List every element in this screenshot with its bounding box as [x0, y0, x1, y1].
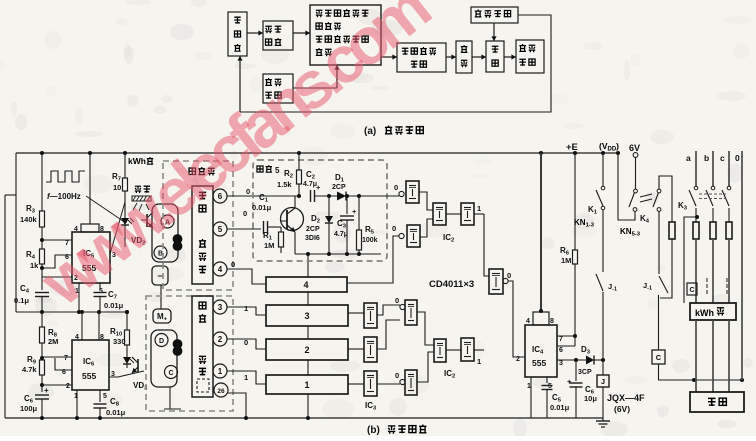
svg-text:0: 0	[246, 187, 250, 196]
svg-text:0: 0	[392, 224, 396, 233]
svg-text:3DI6: 3DI6	[305, 235, 320, 242]
svg-text:4.7k: 4.7k	[22, 365, 37, 374]
svg-text:0: 0	[395, 371, 399, 380]
svg-text:1: 1	[304, 380, 309, 390]
svg-text:C: C	[168, 370, 173, 377]
svg-text:+: +	[44, 386, 49, 395]
svg-text:+: +	[352, 207, 357, 216]
svg-text:8: 8	[550, 318, 554, 325]
svg-text:140k: 140k	[20, 215, 38, 224]
svg-text:330: 330	[113, 337, 126, 346]
svg-text:100μ: 100μ	[20, 404, 38, 413]
svg-text:J: J	[601, 377, 605, 386]
svg-text:4.7μ: 4.7μ	[334, 231, 348, 238]
svg-text:a: a	[686, 153, 691, 163]
svg-text:D: D	[159, 338, 164, 345]
svg-text:4: 4	[75, 334, 79, 341]
svg-text:CD4011×3: CD4011×3	[429, 279, 474, 290]
svg-text:C: C	[656, 353, 662, 362]
svg-text:2CP: 2CP	[306, 226, 320, 233]
svg-text:3: 3	[559, 360, 563, 367]
svg-text:555: 555	[532, 358, 546, 368]
svg-text:1: 1	[244, 373, 248, 382]
svg-text:4.7μ: 4.7μ	[303, 181, 317, 188]
svg-text:1: 1	[477, 204, 481, 213]
svg-text:(a): (a)	[364, 126, 376, 137]
svg-text:1: 1	[244, 304, 248, 313]
svg-text:2M: 2M	[48, 337, 58, 346]
svg-text:(6V): (6V)	[614, 404, 630, 414]
svg-text:7: 7	[559, 336, 563, 343]
svg-text:555: 555	[82, 371, 96, 381]
svg-text:1M: 1M	[561, 256, 571, 265]
svg-text:0.1μ: 0.1μ	[14, 296, 29, 305]
svg-text:kWh: kWh	[128, 156, 146, 166]
svg-text:3: 3	[218, 303, 223, 312]
svg-text:8: 8	[100, 334, 104, 341]
svg-text:b: b	[704, 153, 709, 163]
svg-text:6V: 6V	[629, 143, 640, 153]
svg-text:3: 3	[304, 311, 309, 321]
svg-text:5: 5	[275, 166, 280, 175]
svg-text:4: 4	[526, 318, 530, 325]
svg-text:0: 0	[735, 153, 740, 163]
svg-text:0.01μ: 0.01μ	[104, 301, 124, 310]
svg-text:1M: 1M	[264, 241, 274, 250]
svg-text:0.01μ: 0.01μ	[106, 408, 126, 417]
svg-text:0: 0	[394, 183, 398, 192]
svg-text:0: 0	[243, 209, 247, 218]
svg-text:1: 1	[218, 367, 223, 376]
svg-text:26: 26	[217, 388, 225, 395]
svg-text:2: 2	[516, 356, 520, 363]
svg-text:100k: 100k	[362, 237, 378, 244]
svg-text:+E: +E	[566, 142, 578, 153]
svg-text:5: 5	[103, 393, 107, 400]
svg-text:2: 2	[218, 335, 223, 344]
svg-text:5: 5	[218, 225, 223, 234]
svg-text:1.5k: 1.5k	[277, 180, 292, 189]
svg-text:4: 4	[303, 280, 308, 290]
svg-text:2CP: 2CP	[332, 184, 346, 191]
svg-text:6: 6	[559, 347, 563, 354]
svg-text:0: 0	[395, 296, 399, 305]
svg-text:(b): (b)	[367, 425, 380, 436]
svg-text:−: −	[157, 271, 162, 281]
svg-text:C: C	[689, 287, 694, 294]
svg-text:kWh: kWh	[695, 308, 714, 318]
svg-text:c: c	[720, 153, 725, 163]
svg-text:2: 2	[66, 383, 70, 390]
svg-text:3CP: 3CP	[578, 369, 592, 376]
svg-text:7: 7	[64, 355, 68, 362]
svg-text:0.01μ: 0.01μ	[252, 203, 272, 212]
svg-text:4: 4	[218, 265, 223, 274]
svg-text:1: 1	[527, 383, 531, 390]
svg-text:0: 0	[244, 338, 248, 347]
svg-text:0.01μ: 0.01μ	[550, 403, 570, 412]
svg-text:0: 0	[507, 271, 511, 280]
svg-text:0: 0	[231, 260, 235, 269]
svg-text:10μ: 10μ	[584, 394, 597, 403]
svg-text:JQX—4F: JQX—4F	[607, 393, 645, 403]
svg-text:2: 2	[304, 345, 309, 355]
svg-text:+: +	[567, 377, 572, 386]
svg-text:f—100Hz: f—100Hz	[47, 192, 81, 201]
svg-text:1: 1	[477, 357, 481, 366]
